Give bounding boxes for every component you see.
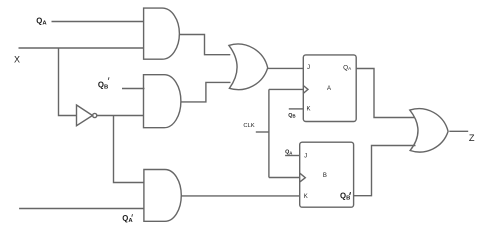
svg-text:QA: QA (285, 150, 292, 156)
wire CLK vertical bus (268, 89, 270, 177)
inverter U1 (77, 105, 97, 126)
svg-text:K: K (307, 107, 311, 113)
svg-text:QB: QB (288, 113, 295, 119)
OR gate 1 (middle) (229, 44, 268, 90)
wire QA' input line to AND3 (19, 208, 144, 210)
svg-text:B: B (323, 173, 327, 179)
svg-text:J: J (304, 154, 307, 160)
wire X to AND1 input (19, 47, 145, 49)
wire AND3 output to FFB K input (181, 195, 299, 197)
svg-text:X: X (14, 55, 20, 65)
wire junction drop to AND3 (114, 116, 145, 183)
AND gate 1 (top) (144, 8, 180, 59)
pin J label FFA (307, 65, 310, 71)
node QA stub label (285, 150, 292, 156)
wire inverter output to AND2 input (97, 115, 144, 117)
node Z output label (469, 133, 475, 143)
OR gate 2 (output) (410, 109, 448, 152)
pin K label FFA (307, 107, 311, 113)
wire CLK (256, 131, 269, 133)
pin J label FFB (304, 154, 307, 160)
node QA' input label (122, 214, 133, 224)
flip-flop U3 B body (300, 142, 354, 207)
svg-text:CLK: CLK (243, 123, 254, 129)
svg-text:K: K (304, 194, 308, 200)
wire AND1 output to OR1 (180, 35, 231, 55)
flip-flop U2 A body (303, 55, 356, 122)
wire QA to AND1 input (52, 21, 145, 23)
pin K label FFB (304, 194, 308, 200)
node QB' input label (98, 77, 109, 90)
pin QA output label FFA (343, 64, 352, 71)
svg-text:QB: QB (340, 192, 350, 202)
wire CLK to FFB clock (269, 177, 300, 179)
svg-text:QA: QA (343, 64, 352, 71)
wire AND2 output to OR1 (181, 82, 231, 102)
wire X branch vertical drop (59, 48, 77, 116)
flip-flop B clock wedge (300, 173, 306, 182)
AND gate 3 (bottom) (144, 170, 181, 222)
wire CLK to FFA clock (269, 88, 303, 90)
wire OR1 output to FFA J input (268, 67, 303, 69)
svg-text:QA: QA (36, 17, 47, 27)
AND gate 2 (middle) (144, 75, 181, 128)
svg-text:A: A (327, 86, 331, 92)
wire FFB QB' output to OR2 input (354, 146, 416, 196)
pin QB' output label FFB (340, 192, 351, 202)
svg-text:Z: Z (469, 133, 475, 143)
flip-flop A name label (327, 86, 331, 92)
node QB stub label (288, 113, 295, 119)
flip-flop B name label (323, 173, 327, 179)
svg-text:QB: QB (98, 80, 108, 90)
node QA input label (36, 17, 47, 27)
node X input label (14, 55, 20, 65)
wire FFA QA output to OR2 input (356, 69, 414, 118)
node CLK label (243, 123, 254, 129)
wire QA stub to FFB J input (285, 155, 300, 157)
wire QB stub to FFA K input (289, 108, 304, 110)
svg-text:J: J (307, 65, 310, 71)
flip-flop A clock wedge (303, 86, 308, 94)
wire QB' to AND2 input (122, 88, 145, 90)
wire OR2 output to Z (449, 130, 468, 132)
